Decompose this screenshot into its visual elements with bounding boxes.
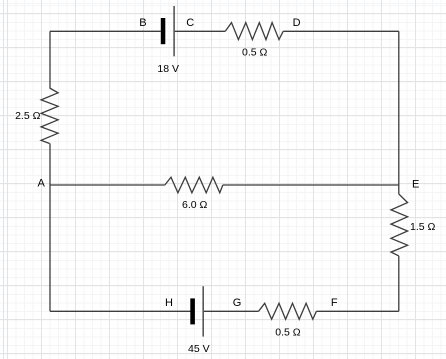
resistor R4 1.5 ohm (right) [391,194,408,256]
resistor R2 2.5 ohm (left) [41,88,58,144]
wire left lower: resistor R2 through node A to bottom corner [49,144,51,312]
resistor R5 0.5 ohm (bottom) [259,303,317,319]
svg-text:D: D [293,17,301,29]
svg-text:E: E [412,178,419,190]
wire middle-left: node A to resistor R3 [50,184,165,186]
svg-text:G: G [233,297,242,309]
battery B1 18V negative plate (thick bar) [161,18,166,44]
svg-text:1.5 Ω: 1.5 Ω [410,221,436,233]
svg-text:18 V: 18 V [157,63,179,75]
wire bottom-left: corner to battery B2 [50,310,191,312]
wire right upper: corner D to node E to resistor R4 [398,31,400,194]
resistor R3 6.0 ohm (middle) [165,177,223,193]
svg-text:C: C [186,17,194,29]
battery B2 45V positive plate (thin line) [202,286,204,336]
svg-text:A: A [38,178,46,190]
svg-text:2.5 Ω: 2.5 Ω [15,110,41,122]
wire middle-right: resistor R3 to node E [223,184,399,186]
svg-text:B: B [139,17,146,29]
svg-text:45 V: 45 V [188,343,210,355]
svg-text:0.5 Ω: 0.5 Ω [242,46,268,58]
wire right lower: resistor R4 to bottom corner [398,256,400,311]
battery B2 45V negative plate (thick bar) [190,298,195,324]
wire top-left: corner to battery B1 [50,30,161,32]
wire bottom-right: resistor R5 to corner [316,310,398,312]
svg-text:F: F [331,297,338,309]
svg-text:0.5 Ω: 0.5 Ω [275,327,301,339]
resistor R1 0.5 ohm (top) [225,23,283,40]
battery B1 18V positive plate (thin line) [173,6,175,56]
svg-text:H: H [165,297,173,309]
wire left upper: corner to resistor R2 [49,31,51,88]
wire top-right: resistor R1 to corner D [283,30,399,32]
svg-text:6.0 Ω: 6.0 Ω [182,199,208,211]
wire top-mid: battery B1 to resistor R1 [174,30,225,32]
wire bottom-mid: battery B2 to resistor R5 [203,310,259,312]
